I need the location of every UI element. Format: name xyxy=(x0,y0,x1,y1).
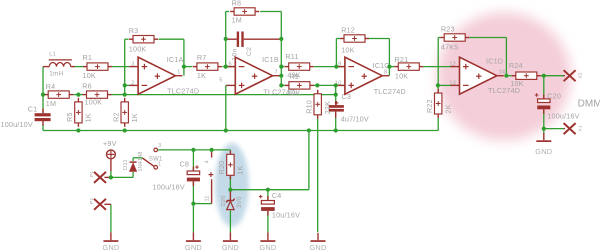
wire C3 bottom to bus xyxy=(335,118,337,131)
svg-text:L1: L1 xyxy=(49,52,56,58)
wire R12 to right column xyxy=(369,38,389,40)
wire R3 down to IC1A output xyxy=(183,39,185,75)
resistor R4 xyxy=(44,91,73,98)
junction R21 branch xyxy=(387,65,391,69)
wire common node y94 xyxy=(125,94,336,96)
wire to X pad 2 xyxy=(544,128,564,130)
wire SW1 to R20 xyxy=(158,149,231,151)
svg-text:11: 11 xyxy=(204,195,210,201)
wire output to R24 xyxy=(506,75,511,77)
svg-text:1K: 1K xyxy=(130,113,139,122)
junction R4/R5/R6 xyxy=(76,93,80,97)
capacitor C8 xyxy=(187,165,200,186)
svg-text:X1: X1 xyxy=(578,125,584,131)
svg-text:R2: R2 xyxy=(112,112,121,122)
resistor R9 xyxy=(285,82,314,89)
wire IC1B feedback right column xyxy=(280,12,282,86)
junction R12 left xyxy=(334,65,338,69)
junction R7/pin6/feedback xyxy=(224,65,228,69)
wire 3V bus xyxy=(43,130,438,132)
resistor R3 xyxy=(129,36,158,43)
svg-text:IC1B: IC1B xyxy=(262,55,279,64)
svg-text:R8: R8 xyxy=(232,0,242,8)
wire node to IC1C pin10 xyxy=(336,84,345,86)
wire to D11 xyxy=(111,176,133,178)
resistor R5 xyxy=(75,98,82,127)
wire ref node up to bus xyxy=(308,131,310,190)
capacitor C4 xyxy=(259,195,275,216)
junction IC1D output xyxy=(504,74,508,78)
wire C20 bottom xyxy=(543,109,545,128)
junction C4 top xyxy=(266,188,270,192)
junction C3 top xyxy=(334,83,338,87)
IC1P power pin 11 xyxy=(211,179,213,203)
svg-text:R22: R22 xyxy=(425,99,434,113)
wire IC1B pin5 to bus xyxy=(225,85,227,130)
junction R20/D20 xyxy=(228,188,232,192)
svg-text:1K: 1K xyxy=(197,71,206,80)
svg-text:DMM: DMM xyxy=(578,99,600,110)
svg-text:7: 7 xyxy=(274,69,277,75)
svg-text:TLC274D: TLC274D xyxy=(167,86,199,95)
+9V supply symbol xyxy=(107,150,116,171)
svg-text:R11: R11 xyxy=(285,52,298,61)
ground GND C8 xyxy=(185,232,202,252)
svg-text:IC1D: IC1D xyxy=(486,57,503,66)
wire to IC1A pin2 xyxy=(125,84,129,86)
wire C4 top xyxy=(267,190,269,201)
wire C8 gnd xyxy=(192,204,194,233)
junction R9 branch xyxy=(279,83,283,87)
wire D11 to SW1 xyxy=(133,157,142,159)
svg-text:1mH: 1mH xyxy=(49,70,63,77)
svg-text:D20: D20 xyxy=(221,195,227,206)
svg-text:TLC274D: TLC274D xyxy=(488,86,520,95)
wire IC1B feedback left column xyxy=(225,12,227,67)
svg-text:3: 3 xyxy=(158,143,161,149)
junction R3/R7 column xyxy=(182,65,186,69)
resistor R8 xyxy=(230,8,259,15)
op-amp IC1A xyxy=(129,57,182,94)
svg-text:C4: C4 xyxy=(272,191,282,200)
svg-text:100u/16V: 100u/16V xyxy=(153,182,185,191)
svg-text:2: 2 xyxy=(131,80,134,86)
wire to R8 xyxy=(226,11,229,13)
wire node to IC1C pin9 xyxy=(336,66,345,68)
wire R12 left column xyxy=(335,39,337,67)
wire IC1B pin5 stub xyxy=(226,84,227,86)
wire R11 to R12 node xyxy=(314,66,337,68)
wire R7 to node xyxy=(222,66,226,68)
test pad P1 xyxy=(94,172,106,183)
junction IC1B output xyxy=(279,74,283,78)
capacitor C3 xyxy=(329,101,344,118)
wire R10 to GND xyxy=(317,119,319,233)
op-amp IC1D xyxy=(451,57,504,94)
svg-text:TLC274D: TLC274D xyxy=(263,87,295,96)
IC1P plus mark xyxy=(209,174,214,176)
resistor R7 xyxy=(193,63,222,70)
svg-text:GND: GND xyxy=(222,243,239,252)
wire R12 down to IC1C output xyxy=(388,39,390,76)
wire to R3 xyxy=(125,38,129,40)
diode D11 xyxy=(130,162,137,171)
resistor R11 xyxy=(285,63,314,70)
wire down to C20 xyxy=(543,76,545,99)
op-amp IC1C xyxy=(336,57,389,94)
wire C1 top / L1 left xyxy=(42,67,44,113)
pink highlight ellipse xyxy=(437,13,571,141)
junction C3 bus xyxy=(334,128,338,132)
junction +9V/P1/D11 xyxy=(109,175,113,179)
inductor L1 xyxy=(43,60,75,67)
svg-text:1N4148: 1N4148 xyxy=(138,151,144,171)
junction R10 top xyxy=(315,83,319,87)
svg-text:IC1C: IC1C xyxy=(373,61,390,70)
svg-text:14: 14 xyxy=(499,69,506,75)
wire to GND stub xyxy=(543,129,545,133)
IC1P power pin 4 xyxy=(211,150,213,158)
svg-text:3: 3 xyxy=(131,61,134,67)
ground GND P2 xyxy=(102,232,119,252)
ground GND C4 xyxy=(259,232,276,252)
svg-text:12: 12 xyxy=(449,61,456,67)
svg-text:R10: R10 xyxy=(305,100,314,114)
svg-text:R7: R7 xyxy=(197,53,207,62)
svg-text:10K: 10K xyxy=(341,45,354,54)
svg-text:10K: 10K xyxy=(83,71,96,80)
junction R24/X/C20 xyxy=(542,74,546,78)
junction pin2 xyxy=(123,83,127,87)
wire ref node horizontal xyxy=(230,189,309,191)
svg-text:R3: R3 xyxy=(129,26,139,35)
junction C1/R4 xyxy=(41,93,45,97)
svg-text:100K: 100K xyxy=(85,97,103,106)
resistor R12 xyxy=(340,35,369,42)
svg-text:R23: R23 xyxy=(441,25,455,34)
svg-text:R12: R12 xyxy=(341,25,355,34)
wire R22 to bus xyxy=(437,118,439,131)
junction pin13 xyxy=(436,83,440,87)
junction ref bus xyxy=(307,128,311,132)
svg-text:10u/16V: 10u/16V xyxy=(272,211,300,220)
wire C1 bottom xyxy=(42,124,44,131)
wire D20 to GND xyxy=(229,211,231,233)
wire to R9 xyxy=(281,84,285,86)
svg-text:D11: D11 xyxy=(123,159,129,170)
svg-text:1M: 1M xyxy=(46,99,56,108)
wire to R12 xyxy=(336,38,340,40)
junction C8 bottom xyxy=(191,202,195,206)
svg-text:100u/10V: 100u/10V xyxy=(1,120,33,129)
svg-text:C8: C8 xyxy=(180,159,190,168)
wire to IC1P pin11 xyxy=(193,203,211,205)
wire C8 bottom xyxy=(192,182,194,204)
svg-text:GND: GND xyxy=(102,243,119,252)
wire R21 to IC1D pin12 xyxy=(423,66,450,68)
svg-text:13: 13 xyxy=(449,80,456,86)
wire +9V down xyxy=(110,171,112,178)
wire P2 to GND xyxy=(110,204,112,232)
capacitor C20 xyxy=(535,93,551,114)
junction C2 left xyxy=(224,37,228,41)
svg-text:5: 5 xyxy=(219,77,222,83)
ground GND D20 xyxy=(222,232,239,252)
wire R9 to C3 node xyxy=(314,84,336,86)
svg-text:R1: R1 xyxy=(83,53,93,62)
resistor R21 xyxy=(394,63,423,70)
svg-text:C1: C1 xyxy=(28,104,38,113)
resistor R23 xyxy=(440,34,469,41)
ground GND R10 xyxy=(309,233,326,252)
zener diode D20 xyxy=(226,190,234,210)
svg-text:GND: GND xyxy=(309,243,326,252)
junction common node at C3 xyxy=(334,93,338,97)
blue highlight ellipse xyxy=(215,143,249,227)
wire D11 cathode up xyxy=(132,158,134,161)
svg-text:R21: R21 xyxy=(395,55,409,64)
junction IC1P pin4 xyxy=(210,148,214,152)
svg-text:R5: R5 xyxy=(65,112,74,122)
svg-text:4: 4 xyxy=(204,160,210,163)
svg-text:3V0: 3V0 xyxy=(236,196,243,208)
svg-text:1K: 1K xyxy=(236,166,245,175)
resistor R6 xyxy=(83,91,112,98)
svg-text:C20: C20 xyxy=(547,92,561,101)
wire R1 to IC1A pin3 xyxy=(112,66,129,68)
svg-text:2K: 2K xyxy=(444,104,453,113)
junction pin5 bus xyxy=(224,128,228,132)
capacitor C2 xyxy=(226,32,282,47)
resistor R1 xyxy=(83,63,112,70)
wire R23 down to IC1D output xyxy=(505,38,507,76)
wire L1 to R1 xyxy=(75,66,84,68)
test pad X2 xyxy=(564,70,576,81)
resistor R2 xyxy=(121,98,128,127)
junction C2 right xyxy=(279,37,283,41)
svg-text:8: 8 xyxy=(384,69,387,75)
svg-text:1: 1 xyxy=(177,69,180,75)
test pad X1 xyxy=(564,123,576,134)
resistor R20 xyxy=(227,150,234,179)
junction R2 bus xyxy=(123,128,127,132)
wire to R23 xyxy=(438,37,440,39)
wire corner R20 xyxy=(229,149,231,151)
wire R23 left column / R22 xyxy=(437,38,439,94)
svg-text:X2: X2 xyxy=(578,72,584,78)
svg-text:P1: P1 xyxy=(89,171,95,177)
svg-text:10K: 10K xyxy=(395,72,408,81)
wire junction to R21 xyxy=(389,66,394,68)
svg-text:47K5: 47K5 xyxy=(441,43,459,52)
wire to R11 xyxy=(281,66,284,68)
svg-text:+9V: +9V xyxy=(103,139,117,148)
svg-text:P2: P2 xyxy=(89,198,95,204)
wire R23 to right column xyxy=(469,37,506,39)
wire R20 to node xyxy=(229,175,231,189)
wire junction to R7 xyxy=(184,66,193,68)
svg-text:1: 1 xyxy=(158,162,161,168)
svg-text:R6: R6 xyxy=(82,81,92,90)
svg-text:6: 6 xyxy=(228,61,231,67)
svg-text:GND: GND xyxy=(259,243,276,252)
op-amp IC1B xyxy=(226,57,279,94)
junction C8 top xyxy=(191,148,195,152)
svg-text:GND: GND xyxy=(535,147,552,156)
wire IC1A feedback column xyxy=(124,39,126,94)
wire R4 to R6 xyxy=(73,94,82,96)
svg-text:9: 9 xyxy=(338,61,341,67)
svg-text:GND: GND xyxy=(185,243,202,252)
junction R5 bus xyxy=(76,128,80,132)
wire to IC1D pin13 xyxy=(438,84,450,86)
wire R6 to node xyxy=(112,94,125,96)
svg-text:R24: R24 xyxy=(509,61,523,70)
svg-text:1M: 1M xyxy=(232,15,242,24)
wire C4 to GND xyxy=(267,211,269,232)
wire R8 to right column xyxy=(260,11,281,13)
svg-text:1K: 1K xyxy=(84,113,93,122)
wire D11 anode stub xyxy=(132,172,134,178)
wire R24 to X pad xyxy=(541,75,564,77)
switch SW1 xyxy=(142,148,157,169)
svg-text:IC1A: IC1A xyxy=(167,55,184,64)
wire C8 top xyxy=(192,150,194,171)
junction R6/R2 xyxy=(123,93,127,97)
test pad P2 xyxy=(94,199,106,210)
svg-text:R4: R4 xyxy=(46,82,56,91)
svg-text:TLC274D: TLC274D xyxy=(374,87,406,96)
wire C3 top xyxy=(335,85,337,101)
svg-text:R20: R20 xyxy=(217,161,226,175)
wire R3 to output column xyxy=(159,38,184,40)
resistor R24 xyxy=(512,72,541,79)
wire node to IC1B pin6 xyxy=(226,66,235,68)
resistor R10 xyxy=(314,90,321,119)
wire C1 col to R4 xyxy=(43,94,44,96)
resistor R22 xyxy=(435,89,442,118)
svg-text:100u/16V: 100u/16V xyxy=(547,111,579,120)
junction R11 branch xyxy=(279,65,283,69)
capacitor C1 xyxy=(35,109,51,126)
svg-text:C2: C2 xyxy=(246,47,253,56)
svg-text:100K: 100K xyxy=(129,45,147,54)
svg-text:4u7/10V: 4u7/10V xyxy=(341,114,369,123)
ground GND C20 xyxy=(535,133,552,156)
junction C20 bottom xyxy=(542,127,546,131)
svg-text:R9: R9 xyxy=(289,72,299,81)
